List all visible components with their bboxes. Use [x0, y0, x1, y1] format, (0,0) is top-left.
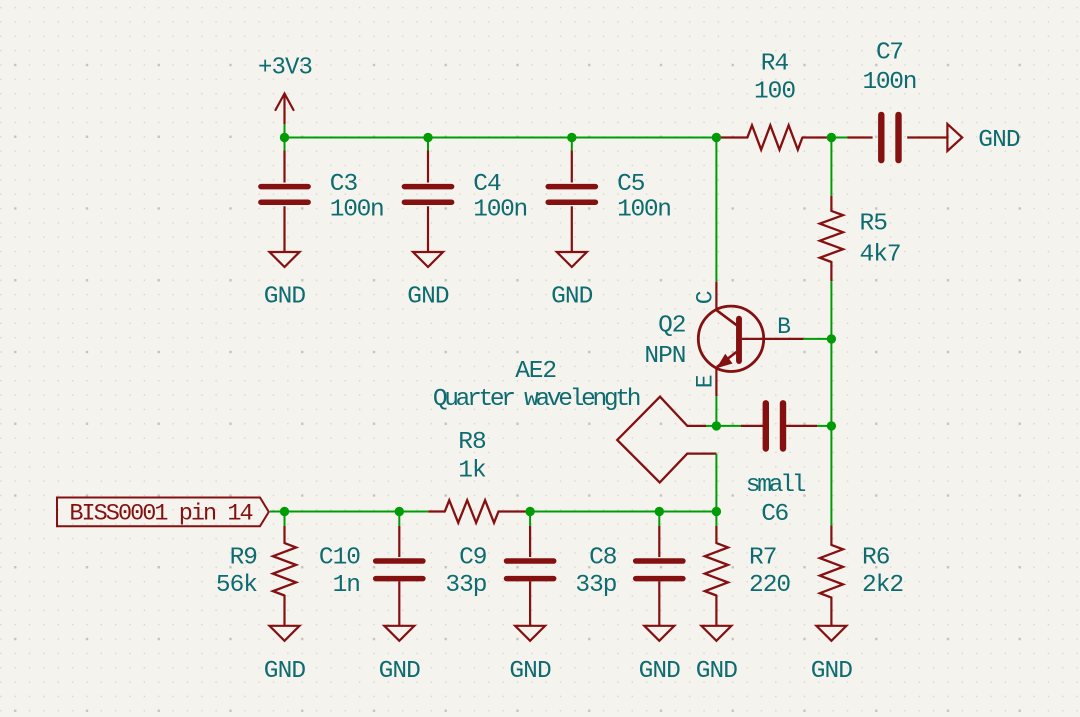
svg-text:4k7: 4k7 — [860, 241, 901, 268]
wire antenna pin2 down to bottom rail — [715, 454, 717, 512]
svg-text:33p: 33p — [445, 572, 486, 599]
svg-text:100n: 100n — [330, 197, 384, 224]
svg-text:+3V3: +3V3 — [258, 55, 312, 82]
transistor Q2 base bar — [736, 319, 742, 361]
svg-text:R4: R4 — [761, 51, 789, 78]
capacitor C4 pin 2 — [427, 206, 429, 251]
junction node 10 — [395, 507, 404, 516]
svg-text:GND: GND — [379, 658, 421, 685]
wire R9 top stub — [284, 512, 286, 527]
svg-text:GND: GND — [639, 658, 681, 685]
svg-text:E: E — [693, 375, 719, 388]
svg-text:GND: GND — [696, 658, 738, 685]
svg-text:R5: R5 — [860, 211, 888, 238]
resistor R4 pin 1 — [716, 136, 747, 138]
ground right of C7 (sideways) — [947, 124, 962, 151]
capacitor C9 — [507, 558, 554, 564]
svg-text:R6: R6 — [862, 545, 890, 572]
wire base pin to right rail — [804, 338, 832, 340]
capacitor C5 pin 1 — [571, 151, 573, 183]
svg-text:small: small — [746, 472, 806, 499]
capacitor C10 pin 2 — [398, 581, 400, 625]
resistor R9 pin 2 — [283, 596, 285, 626]
wire collector from top rail — [715, 138, 717, 282]
wire top rail from +3V3 to R4 left node — [285, 137, 717, 139]
capacitor C8 pin 2 — [658, 581, 660, 625]
wire C6 to right rail — [817, 425, 831, 427]
wire bottom rail right of R8 — [530, 511, 716, 513]
resistor R7 pin 2 — [715, 596, 717, 626]
ground below C3 — [270, 252, 300, 267]
junction node 12 — [655, 507, 664, 516]
resistor R5 pin 2 — [830, 262, 832, 281]
capacitor C7 — [878, 115, 884, 160]
svg-text:100n: 100n — [862, 69, 916, 96]
capacitor C10 pin 1 — [398, 526, 400, 557]
wire C7 node down to R5 — [830, 138, 832, 196]
wire C10 top stub — [398, 512, 400, 527]
capacitor C4 pin 1 — [427, 151, 429, 183]
svg-text:33p: 33p — [575, 572, 616, 599]
resistor R8 pin 1 — [428, 510, 445, 512]
capacitor C3 pin 2 — [283, 206, 285, 251]
ground below R7 — [701, 626, 731, 641]
junction node 7 — [827, 421, 836, 430]
svg-text:GND: GND — [407, 284, 449, 311]
antenna AE2 body — [617, 397, 687, 483]
svg-text:1k: 1k — [458, 458, 486, 485]
svg-text:C7: C7 — [876, 40, 903, 67]
svg-text:NPN: NPN — [644, 343, 685, 370]
wire stub right of R4 to C7 — [831, 137, 847, 139]
wire C9 top stub — [529, 512, 531, 527]
transistor Q2 emitter diagonal — [717, 352, 737, 367]
junction node 6 — [827, 334, 836, 343]
svg-text:GND: GND — [978, 127, 1020, 154]
wire emitter node to C6 — [716, 425, 741, 427]
transistor Q2 body circle — [698, 306, 763, 371]
capacitor C6 — [763, 403, 769, 448]
junction node 2 — [423, 133, 432, 142]
transistor Q2 emitter arrow — [718, 355, 731, 367]
ground below R9 — [270, 626, 300, 641]
wire C5 top stub — [571, 138, 573, 151]
svg-text:C5: C5 — [617, 171, 645, 198]
svg-text:Quarter wavelength: Quarter wavelength — [433, 386, 640, 413]
junction node 9 — [280, 507, 289, 516]
capacitor C4 — [404, 184, 451, 190]
resistor R7 pin 1 — [715, 526, 717, 543]
transistor Q2 base pin — [742, 338, 804, 340]
svg-text:C9: C9 — [459, 545, 486, 572]
svg-text:AE2: AE2 — [515, 358, 556, 385]
svg-text:GND: GND — [811, 658, 853, 685]
junction node 4 — [712, 133, 721, 142]
capacitor C6 pin 1 — [741, 425, 766, 427]
resistor R7 — [705, 543, 728, 595]
capacitor C6 pin 2 — [783, 425, 817, 427]
svg-text:BISS0001 pin 14: BISS0001 pin 14 — [69, 500, 252, 527]
junction node 11 — [525, 507, 534, 516]
wire +3V3 stem — [284, 124, 286, 138]
svg-text:2k2: 2k2 — [862, 572, 903, 599]
transistor Q2 emitter pin — [715, 367, 717, 396]
resistor R8 pin 2 — [499, 510, 531, 512]
junction node 8 — [712, 421, 721, 430]
transistor Q2 collector diagonal — [716, 310, 736, 325]
resistor R4 — [747, 125, 802, 149]
svg-text:C: C — [693, 291, 719, 304]
svg-text:220: 220 — [749, 572, 790, 599]
resistor R6 — [820, 545, 843, 598]
junction node 13 — [712, 507, 721, 516]
capacitor C7 pin 1 — [848, 136, 873, 138]
resistor R6 pin 1 — [830, 525, 832, 545]
ground below C8 — [644, 626, 674, 641]
transistor Q2 collector pin — [715, 282, 717, 310]
antenna AE2 pin 1 — [687, 425, 706, 427]
ground below C9 — [515, 626, 545, 641]
capacitor C8 pin 1 — [658, 526, 660, 557]
wire R7 top stub — [715, 512, 717, 527]
ground below R6 — [816, 626, 846, 641]
wire emitter to antenna node — [715, 396, 717, 426]
svg-text:GND: GND — [264, 284, 306, 311]
resistor R6 pin 2 — [830, 598, 832, 626]
global label BISS0001 pin 14 outline — [57, 498, 269, 527]
capacitor C10 — [376, 558, 423, 564]
resistor R9 — [273, 543, 296, 595]
wire C3 top stub — [284, 138, 286, 151]
antenna AE2 pin 2 — [687, 453, 716, 455]
ground below C5 — [557, 252, 587, 267]
resistor R8 — [445, 500, 499, 523]
resistor R5 — [820, 211, 843, 262]
svg-text:C10: C10 — [319, 545, 360, 572]
svg-text:Q2: Q2 — [658, 312, 685, 339]
svg-text:100: 100 — [754, 79, 795, 106]
svg-text:B: B — [777, 314, 790, 340]
resistor R9 pin 1 — [283, 526, 285, 543]
wire C8 top stub — [658, 512, 660, 527]
svg-text:R7: R7 — [749, 545, 776, 572]
capacitor C9 pin 2 — [529, 581, 531, 625]
svg-text:C4: C4 — [473, 171, 501, 198]
resistor R4 pin 2 — [802, 136, 831, 138]
capacitor C5 — [548, 184, 595, 190]
svg-text:GND: GND — [551, 284, 593, 311]
wire antenna pin1 to node — [706, 425, 716, 427]
svg-text:GND: GND — [264, 658, 306, 685]
svg-text:R8: R8 — [458, 429, 486, 456]
capacitor C7 pin 2 — [907, 136, 947, 138]
power symbol +3V3 (PWR01) — [283, 96, 285, 125]
junction node 5 — [827, 133, 836, 142]
wire C4 top stub — [427, 138, 429, 151]
junction node 1 — [280, 133, 289, 142]
capacitor C3 — [261, 184, 308, 190]
capacitor C8 — [636, 558, 683, 564]
wire R5 to base node — [830, 281, 832, 339]
capacitor C3 pin 1 — [283, 151, 285, 183]
svg-text:100n: 100n — [617, 197, 671, 224]
svg-text:56k: 56k — [216, 572, 257, 599]
svg-text:100n: 100n — [473, 197, 527, 224]
wire bottom rail left of R8 — [270, 511, 428, 513]
ground below C4 — [413, 252, 443, 267]
wire base node to C6 node — [830, 339, 832, 426]
svg-text:1n: 1n — [333, 572, 360, 599]
svg-text:GND: GND — [509, 658, 551, 685]
svg-text:R9: R9 — [230, 545, 257, 572]
capacitor C5 pin 2 — [571, 206, 573, 251]
wire C6 node down to R6 — [830, 426, 832, 526]
ground below C10 — [384, 626, 414, 641]
junction node 3 — [567, 133, 576, 142]
capacitor C9 pin 1 — [529, 526, 531, 557]
svg-text:C8: C8 — [589, 545, 617, 572]
svg-text:C3: C3 — [330, 171, 358, 198]
svg-text:C6: C6 — [761, 501, 788, 528]
resistor R5 pin 1 — [830, 196, 832, 211]
